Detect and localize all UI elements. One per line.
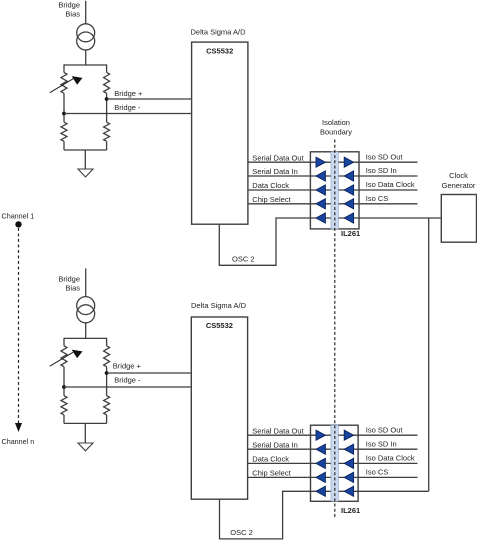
wire Iso SD Out ch2 [358,434,417,436]
wire Chip Select ch2 [248,476,311,478]
wire Bridge+ ch2 [107,372,192,374]
wire bias feed top ch1 [85,1,87,24]
svg-text:Delta Sigma A/D: Delta Sigma A/D [191,27,247,36]
svg-text:Chip Select: Chip Select [252,195,291,204]
wire isolator internal row1 ch2 [311,434,359,436]
isolator channel arrow right row4 ch2 [344,472,353,482]
svg-text:Bias: Bias [65,9,80,18]
resistor bridge top-left (variable) ch1 [61,72,67,93]
wire isolator internal row2 ch2 [311,448,359,450]
wire right branch upper ch2 [106,338,108,346]
wire Iso SD In ch1 [359,175,418,177]
wire bias to bridge ch2 [85,323,87,339]
svg-text:Bridge +: Bridge + [114,89,143,98]
wire bias feed top ch2 [85,268,87,296]
svg-text:IL261: IL261 [341,229,360,238]
wire isolator internal row2 ch1 [310,175,359,177]
svg-text:Bridge -: Bridge - [114,103,141,112]
wire Iso Data Clock ch2 [358,462,417,464]
isolator channel arrow right row3 ch2 [344,458,353,468]
svg-text:Iso SD Out: Iso SD Out [366,152,404,161]
ADC U1 CS5532 box ch1 [192,42,248,224]
wire Iso CS ch2 [358,476,417,478]
isolator channel arrow right row1 ch2 [344,430,353,440]
svg-text:Bridge: Bridge [58,274,80,283]
svg-text:Serial Data Out: Serial Data Out [252,426,304,435]
isolator channel arrow left row3 ch1 [316,185,325,195]
wire isolator internal row4 ch2 [311,476,359,478]
clock generator box [441,195,476,243]
wire bridge top rail ch1 [64,64,107,66]
svg-text:Iso Data Clock: Iso Data Clock [366,454,415,463]
wire left branch middle ch2 [63,367,65,396]
isolation barrier band ch2 [331,425,338,501]
svg-text:Chip Select: Chip Select [252,469,291,478]
resistor bridge bottom-right ch1 [104,122,110,141]
isolator channel arrow left row2 ch1 [316,171,325,181]
svg-text:CS5532: CS5532 [206,47,233,56]
wire Bridge+ ch1 [107,98,192,100]
svg-text:Serial Data In: Serial Data In [252,440,297,449]
isolator channel arrow left row5 ch1 [316,213,325,223]
wire ground stem ch2 [84,423,86,443]
channel range arrowhead [15,423,22,432]
wire bridge bottom rail ch1 [64,149,107,151]
wire Iso Data Clock ch1 [359,189,418,191]
isolator channel arrow left row1 ch2 [316,430,325,440]
wire isolator internal row3 ch1 [310,189,359,191]
isolator channel arrow right row2 ch2 [344,444,353,454]
svg-text:Data Clock: Data Clock [252,455,289,464]
resistor bridge bottom-right ch2 [104,396,110,415]
isolation boundary dashed line [334,140,336,518]
svg-text:Boundary: Boundary [320,128,352,137]
wire bridge top rail ch2 [64,337,107,339]
node Bridge+ junction ch1 [105,97,109,101]
wire Bridge- ch2 [64,386,191,388]
resistor bridge top-right ch1 [104,72,110,93]
node Bridge- junction ch2 [62,385,66,389]
svg-text:Serial Data Out: Serial Data Out [252,153,304,162]
svg-text:Channel 1: Channel 1 [2,212,35,221]
svg-text:Channel n: Channel n [2,437,35,446]
svg-text:Bias: Bias [65,283,80,292]
isolator channel arrow left row4 ch1 [316,199,325,209]
resistor bridge bottom-left ch1 [61,122,67,141]
isolator channel arrow left row1 ch1 [316,157,325,167]
svg-text:Clock: Clock [449,171,468,180]
svg-text:Bridge: Bridge [58,0,80,9]
wire Bridge- ch1 [64,113,192,115]
wire isolator internal row1 ch1 [310,161,359,163]
node Channel 1 dot [15,221,21,227]
isolator channel arrow right row3 ch1 [344,185,353,195]
wire Serial Data In ch2 [248,448,311,450]
isolator channel arrow left row3 ch2 [316,458,325,468]
wire right branch middle ch2 [106,367,108,396]
node Bridge- junction ch1 [62,112,66,116]
wire Serial Data In ch1 [248,175,311,177]
isolator U2 IL261 box ch1 [310,152,359,229]
wire Serial Data Out ch2 [248,434,311,436]
wire isolator internal row3 ch2 [311,462,359,464]
svg-text:Isolation: Isolation [322,118,350,127]
isolator channel arrow right row5 ch1 [344,213,353,223]
resistor bridge bottom-left ch2 [61,396,67,415]
current source B2 (bridge bias ch2) [77,297,95,323]
wire isolator internal row5 ch2 [311,490,359,492]
isolator channel arrow left row5 ch2 [316,486,325,496]
isolator channel arrow right row1 ch1 [344,157,353,167]
svg-text:Iso SD In: Iso SD In [366,166,397,175]
wire ground stem ch1 [84,150,86,169]
node Bridge+ junction ch2 [105,371,109,375]
svg-text:Iso SD In: Iso SD In [366,439,397,448]
channel range dashed line [18,228,20,424]
svg-text:Iso CS: Iso CS [366,194,389,203]
wire Chip Select ch1 [248,203,311,205]
resistor bridge top-right ch2 [104,346,110,367]
wire left branch upper ch1 [63,64,65,72]
svg-text:Iso Data Clock: Iso Data Clock [366,180,415,189]
wire right branch lower ch2 [106,415,108,424]
variable-resistor arrow ch2 [50,350,83,367]
wire left branch lower ch2 [63,415,65,424]
svg-text:Serial Data In: Serial Data In [252,167,297,176]
svg-text:Delta Sigma A/D: Delta Sigma A/D [191,301,247,310]
svg-text:OSC 2: OSC 2 [232,254,255,263]
isolator channel arrow left row4 ch2 [316,472,325,482]
isolation barrier band ch1 [331,152,338,229]
wire isolator internal row5 ch1 [310,217,359,219]
wire bias to bridge ch1 [85,50,87,66]
svg-text:CS5532: CS5532 [206,321,233,330]
isolator channel arrow right row5 ch2 [344,486,353,496]
wire clock distribution riser [428,218,430,491]
svg-text:Data Clock: Data Clock [252,181,289,190]
wire isolator internal row4 ch1 [310,203,359,205]
wire left branch lower ch1 [63,141,65,150]
svg-text:Iso CS: Iso CS [366,468,389,477]
svg-text:IL261: IL261 [341,506,360,515]
wire clock to isolator row5 ch1 [359,217,441,219]
wire right branch lower ch1 [106,141,108,150]
wire Serial Data Out ch1 [248,161,311,163]
isolator channel arrow right row2 ch1 [344,171,353,181]
svg-text:OSC 2: OSC 2 [230,528,253,537]
wire right branch upper ch1 [106,64,108,72]
resistor bridge top-left (variable) ch2 [61,346,67,367]
wire Data Clock ch1 [248,189,311,191]
wire Iso CS ch1 [359,203,418,205]
wire left branch middle ch1 [63,93,65,122]
svg-text:Bridge +: Bridge + [113,361,142,370]
wire Data Clock ch2 [248,462,311,464]
svg-text:Iso SD Out: Iso SD Out [366,425,404,434]
isolator channel arrow right row4 ch1 [344,199,353,209]
wire Iso SD Out ch1 [359,161,418,163]
wire OSC2 route ch2 [220,491,311,539]
variable-resistor arrow ch1 [50,76,83,93]
current source B1 (bridge bias ch1) [77,24,95,50]
isolator U4 IL261 box ch2 [311,425,359,501]
ground symbol ch1 [78,169,93,177]
svg-text:Generator: Generator [442,181,476,190]
wire OSC2 route ch1 [219,218,310,265]
svg-text:Bridge -: Bridge - [114,375,141,384]
wire clock to isolator row5 ch2 [358,490,429,492]
wire Iso SD In ch2 [358,448,417,450]
wire bridge bottom rail ch2 [64,422,107,424]
wire right branch middle ch1 [106,93,108,122]
wire left branch upper ch2 [63,338,65,346]
isolator channel arrow left row2 ch2 [316,444,325,454]
ground symbol ch2 [78,443,93,451]
ADC U3 CS5532 box ch2 [191,317,247,499]
